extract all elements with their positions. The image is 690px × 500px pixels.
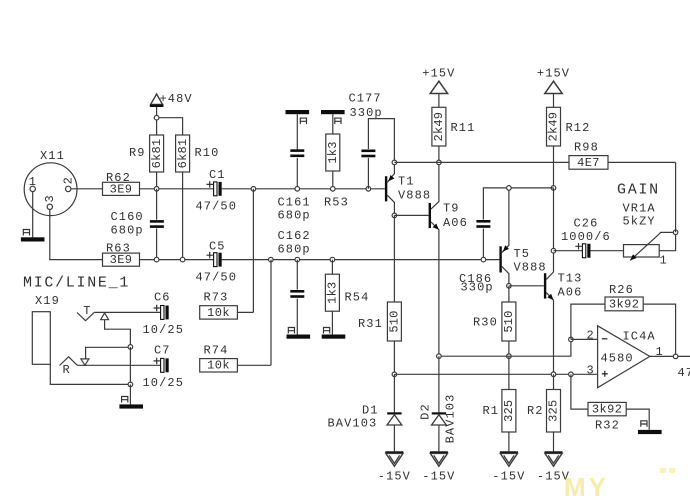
wire C186 bottom to T5 base line [482,229,484,260]
wire R53 to upper line [332,171,334,189]
wire R10 to lower line [182,172,184,260]
svg-text:R32: R32 [595,418,620,432]
wire R11 to node [438,146,440,162]
svg-text:GAIN: GAIN [617,182,660,199]
resistor R32 [588,402,626,415]
power +15V at R12 [545,81,562,93]
wire R74 to riser [237,364,271,366]
resistor R26 [605,297,643,311]
wire X11 pin2 to R62 [71,188,103,190]
svg-text:2k49: 2k49 [432,112,446,142]
node pin2/R26 [569,337,574,342]
ground A below R54 [322,335,346,339]
power -15V at D2 [430,451,448,453]
capacitor C161 [290,149,304,152]
node R9/upper line [154,187,159,192]
svg-text:R9: R9 [129,146,146,160]
svg-text:+15V: +15V [422,67,455,81]
wire T5 collector to T13 base [509,285,544,287]
node R53/upper line [331,187,336,192]
svg-text:47: 47 [678,366,690,380]
svg-text:R54: R54 [345,291,370,305]
wire R12 down [553,146,555,188]
svg-text:4E7: 4E7 [577,156,600,170]
connector X11 [24,163,77,216]
svg-text:T13: T13 [558,272,583,286]
svg-text:4580: 4580 [601,352,634,366]
wire ground to R53 [332,114,334,134]
diode D1 [387,412,401,414]
svg-text:C162: C162 [278,229,311,243]
svg-text:680p: 680p [111,223,144,237]
node X19 sleeve junction [128,382,133,387]
node R10/lower line [180,257,185,262]
svg-text:V888: V888 [398,189,431,203]
ground A below C162 [287,335,311,339]
svg-text:10k: 10k [207,306,230,320]
svg-text:680p: 680p [278,209,311,223]
svg-text:R12: R12 [566,121,591,135]
power -15V at R2 [545,451,563,453]
wire upper line C1 to T1 base [222,188,385,190]
svg-text:T5: T5 [514,247,531,261]
wire pin3 line to R2 [553,374,555,389]
wire op-amp output [650,355,690,357]
svg-text:2: 2 [62,176,76,184]
svg-text:R: R [63,363,70,377]
wire tip switch to node [105,320,131,347]
resistor R1 [502,390,516,433]
wire R2 to -15V [553,432,555,451]
svg-text:2k49: 2k49 [547,112,561,142]
wire VR1A terminal 1 to node [659,232,675,250]
ground A at R32 [638,430,662,434]
svg-text:R11: R11 [451,121,476,135]
capacitor C177 [361,150,375,153]
resistor R62 [103,182,140,195]
wire +48V to R10 [157,118,183,135]
svg-text:R30: R30 [473,316,498,330]
wire ring switch to node [86,347,131,359]
wire upper line to C160 [156,189,158,220]
capacitor C7 [161,358,164,372]
resistor R74 [200,359,238,372]
wire R1 to -15V [508,432,510,451]
svg-text:C177: C177 [349,92,382,106]
wire T9 emitter to R30/R1 junction [439,355,509,357]
wire R12 node to T13 collector [553,188,555,251]
capacitor C1 [214,182,217,196]
svg-text:1: 1 [660,253,668,267]
wire +15V to R11 [438,94,440,108]
node C177/upper line [366,187,371,192]
wire to ground [129,384,131,404]
svg-text:MIC/LINE_1: MIC/LINE_1 [23,274,130,291]
capacitor C5 [214,253,217,267]
svg-text:3: 3 [587,363,595,377]
svg-text:X11: X11 [40,149,65,163]
node C161/upper line [295,187,300,192]
node +48V junction [154,115,159,120]
svg-text:C5: C5 [209,239,226,253]
svg-text:+15V: +15V [537,67,570,81]
svg-text:BAV103: BAV103 [444,394,458,444]
X19 ring switch [81,359,89,365]
wire C186 top to T5 emitter column [483,188,509,220]
svg-text:C26: C26 [574,217,599,231]
svg-text:R98: R98 [574,140,599,154]
svg-text:T9: T9 [443,202,460,216]
diode D2 [432,412,446,414]
wire riser to R74 [270,260,272,366]
svg-text:+48V: +48V [160,92,193,106]
power -15V at R1 [500,451,518,453]
wire to op-amp pin 2 [571,338,598,340]
node T9 emitter/D2 [437,354,442,359]
capacitor C186 [476,220,490,223]
svg-text:1: 1 [29,175,37,189]
svg-text:-15V: -15V [492,470,525,484]
node T1 emitter/C177/R11 line [392,160,397,165]
svg-text:A06: A06 [558,285,583,299]
trimmer VR1A [624,245,660,257]
wire R26 to output node [643,304,675,356]
wire T5 collector node to R30 [508,286,510,302]
svg-text:5kZY: 5kZY [623,215,656,229]
op-amp IC4A [598,326,650,388]
node R11/T9 collector [437,160,442,165]
wire T5 emitter node to R12 node [509,187,554,189]
svg-text:-15V: -15V [378,470,411,484]
wire T1 collector node to R31 [393,215,395,302]
svg-text:325: 325 [547,400,561,422]
node X19 switch junction [128,345,133,350]
node C5 out/R74 riser [269,257,274,262]
wire junction to R1 [508,356,510,389]
X19 tip switch [101,313,109,320]
svg-text:330p: 330p [461,281,494,295]
svg-text:R53: R53 [324,195,349,209]
svg-text:R2: R2 [527,404,544,418]
svg-text:C6: C6 [154,290,171,304]
svg-text:10/25: 10/25 [143,376,185,390]
svg-text:47/50: 47/50 [196,270,238,284]
capacitor C6 [161,306,164,320]
svg-text:R26: R26 [609,283,634,297]
svg-text:3E9: 3E9 [110,253,133,267]
svg-text:1k3: 1k3 [326,282,340,304]
wire T1 emitter line to R98 [394,161,569,163]
node C160/lower line [154,257,159,262]
svg-text:MY: MY [564,472,609,500]
wire R73 to riser [237,311,253,313]
wire junction to pin2 node [509,339,571,356]
svg-text:325: 325 [502,400,516,422]
node output/feedback [673,354,678,359]
node R54/lower line [330,257,335,262]
node C1 out/R73 riser [251,187,256,192]
svg-text:D1: D1 [362,403,379,417]
svg-text:T1: T1 [398,174,415,188]
wire X11 pin3 to R63 [50,210,103,260]
wire pin3 line [394,373,597,375]
power +48V [151,94,163,105]
wire T9 emitter node to D2 [438,356,440,412]
svg-text:R74: R74 [204,343,229,357]
wire T13 collector to C26 [554,250,583,252]
wire D2 to -15V [438,425,440,451]
svg-text:VR1A: VR1A [623,201,656,215]
wire X19 sleeve to ground node [50,364,130,384]
wire ground to C161 [296,114,298,149]
wire lower line to R54 [331,260,333,275]
svg-text:1k3: 1k3 [326,141,340,163]
wire C26 to VR1A [590,250,623,252]
wire +48V to R9 [156,107,158,135]
svg-text:T: T [83,304,90,318]
resistor R98 [569,156,608,170]
svg-text:510: 510 [502,310,516,332]
resistor R30 [502,302,516,341]
resistor R73 [200,306,238,319]
capacitor C160 [150,220,164,223]
node T13 emitter/R2 [551,372,556,377]
svg-text:3: 3 [43,194,57,202]
ground A at X19 [119,404,143,408]
svg-text:-15V: -15V [422,470,455,484]
resistor R11 [432,107,446,146]
svg-text:R1: R1 [483,404,500,418]
wire node to D1 [393,374,395,412]
wire switch node down [129,347,131,385]
svg-text:6k81: 6k81 [176,139,190,169]
wire R98 to VR1A node [675,162,677,232]
wire lower line C5 to T5 base [222,259,500,261]
wire X11 pin1 to ground [32,192,34,238]
svg-text:3E9: 3E9 [110,182,133,196]
X19 tip contact T [77,312,94,320]
node C186/T5 base [481,257,486,262]
resistor R2 [547,390,561,433]
svg-text:R10: R10 [195,146,220,160]
capacitor C162 [290,290,304,293]
resistor R31 [387,302,401,341]
power -15V at D1 [385,451,403,453]
svg-text:V888: V888 [514,261,547,275]
wire tip to C6 [94,311,160,313]
node R30/R1 junction [507,354,512,359]
svg-text:680p: 680p [278,242,311,256]
node R12/C186 line [551,186,556,191]
capacitor C26 [582,244,585,258]
svg-text:C161: C161 [278,195,311,209]
svg-text:A06: A06 [443,216,468,230]
svg-text:330p: 330p [350,106,383,120]
wire D1 to -15V [393,425,395,451]
resistor R12 [547,107,561,146]
wire +15V to R12 [553,94,555,108]
wire R32 to ground [626,409,649,430]
transistor T13 [544,273,546,298]
resistor R53 [326,134,340,171]
node T13 collector/C26 [551,248,556,253]
wire R31 to node [393,341,395,374]
svg-text:IC4A: IC4A [623,329,656,343]
node T1 collector/T9 base [392,213,397,218]
resistor R63 [103,253,140,266]
node VR1A wiper/R98 [673,230,678,235]
wire pin3 node to R32 [571,374,588,409]
svg-text:R31: R31 [358,317,383,331]
ground A above C161 [286,110,310,114]
wire C160 to lower line [156,228,158,259]
node C162/lower line [295,257,300,262]
wire C162 to ground [296,299,298,335]
svg-text:D2: D2 [419,403,433,420]
node T5 collector/T13 base [507,284,512,289]
X19 ring contact R [60,357,78,366]
wire R54 to ground [331,311,333,334]
svg-text:10k: 10k [207,359,230,373]
node T5 emitter/line [507,186,512,191]
svg-text:10/25: 10/25 [143,323,185,337]
wire C161 to upper line [296,158,298,189]
svg-text:6k81: 6k81 [150,139,164,169]
svg-text:C1: C1 [209,168,226,182]
svg-text:C7: C7 [154,343,171,357]
svg-text:R73: R73 [204,290,229,304]
svg-text:2: 2 [587,328,595,342]
wire upper line to C177 [367,158,369,189]
wire upper line R62 to C1 [140,188,214,190]
wire R9 to upper line [156,172,158,189]
svg-text:3k92: 3k92 [592,403,622,417]
transistor T9 [429,203,431,228]
svg-text:X19: X19 [35,294,60,308]
wire T1 collector to T9 base [394,214,428,216]
wire pin2 node to R26 [571,304,605,339]
wire R30 to node [508,341,510,356]
wire lower line to C162 [296,260,298,290]
node pin3/R32 [569,372,574,377]
wire ring to C7 [77,364,160,366]
node R31/D1/pin3 line [392,372,397,377]
ground A at X11 pin1 [21,237,45,241]
wire R98 to feedback column [608,161,676,163]
svg-text:47/50: 47/50 [196,200,238,214]
transistor T5 [499,246,501,272]
resistor R10 [176,135,190,172]
wire C177 top to T1 emitter node [368,119,394,163]
resistor R54 [325,274,339,311]
power +15V at R11 [430,81,447,93]
svg-text:C160: C160 [111,210,144,224]
svg-text:BAV103: BAV103 [328,417,378,431]
svg-text:3k92: 3k92 [609,297,639,311]
transistor T1 [385,176,387,201]
ground A above R53 [321,110,345,114]
wire riser to R73 [252,189,254,313]
wire lower line R63 to C5 [140,259,214,261]
resistor R9 [150,135,164,172]
svg-text:510: 510 [388,310,402,332]
svg-text:1000/6: 1000/6 [561,230,611,244]
